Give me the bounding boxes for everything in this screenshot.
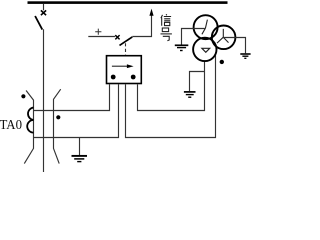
delta symbol W3 [202, 48, 210, 52]
signal label 信 [161, 14, 171, 25]
wire feeder [43, 29, 45, 172]
dashed linkage relay to signal switch [125, 43, 127, 55]
wire TA0 secondary top to relay [34, 84, 110, 110]
phase A conductor [24, 91, 33, 164]
relay terminal dot left [111, 75, 116, 80]
polarity dot transformer [220, 60, 224, 64]
signal switch blade [120, 37, 133, 46]
wye symbol W1 [202, 20, 208, 35]
wire TA0 secondary bottom to relay [34, 84, 119, 137]
ground G1 [175, 45, 189, 50]
three-winding transformer circle W1 [194, 15, 218, 39]
wire to signal arrow [132, 15, 151, 37]
relay arrow [112, 65, 128, 67]
ground G4 [72, 138, 88, 162]
polarity dot TA0 primary [21, 94, 25, 98]
relay KD box [107, 56, 142, 84]
relay terminal dot right [131, 75, 136, 80]
ground G3 [184, 92, 196, 97]
signal switch fixed contact cross [115, 35, 119, 39]
polarity dot secondary [56, 115, 60, 119]
current transformer TA0 secondary winding [27, 108, 33, 133]
signal arrowhead [149, 9, 153, 16]
three-winding transformer circle W2 [212, 26, 236, 50]
ground G2 [240, 54, 250, 58]
busbar [28, 1, 228, 4]
plus label [95, 29, 101, 35]
three-winding transformer circle W3 [193, 38, 216, 61]
wire transformer tertiary to ground G3 [190, 72, 205, 92]
wire [43, 4, 45, 10]
wire W2 to ground G2 [223, 38, 245, 54]
signal label 号 [161, 28, 172, 41]
circuit breaker QF contact cross [41, 10, 46, 15]
svg-text:TA0: TA0 [0, 118, 22, 133]
wire W1 to ground G1 [182, 29, 206, 45]
phase C conductor [54, 89, 61, 163]
wire relay leg4 to transformer [138, 61, 205, 111]
wire DC supply [88, 36, 115, 38]
wire relay leg3 to transformer [126, 55, 216, 138]
wye symbol W2 [217, 29, 229, 43]
circuit breaker QF blade [35, 16, 42, 30]
